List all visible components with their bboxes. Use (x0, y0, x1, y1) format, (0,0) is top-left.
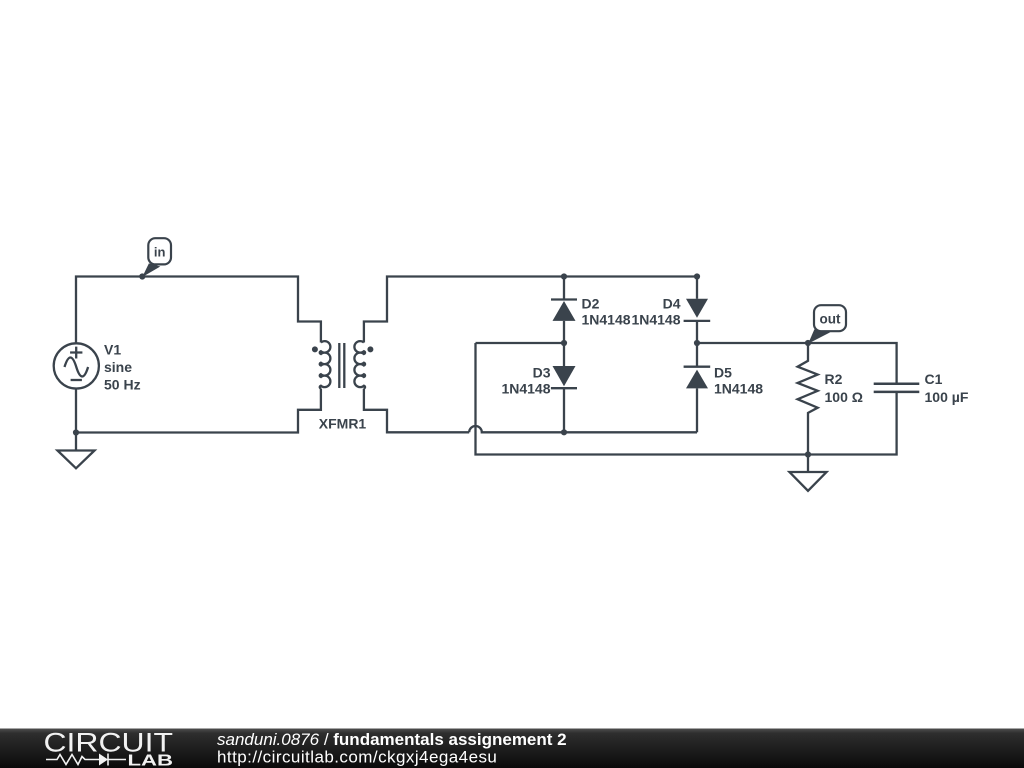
diode D2 (551, 277, 577, 344)
wire hop over vertical at x=475.5 (469, 426, 697, 432)
node H (out junction) (805, 340, 811, 346)
diode D4 (684, 277, 711, 344)
R2 labels (825, 371, 863, 405)
svg-text:D5: D5 (714, 365, 732, 381)
D4 labels (631, 296, 680, 328)
wire middle-right rail from D4/D5 junction to C1 top (697, 343, 897, 384)
transformer polarity dot (secondary) (367, 346, 373, 352)
D2 labels (582, 296, 631, 328)
V1 value labels (104, 342, 141, 393)
svg-text:sanduni.0876 / fundamentals as: sanduni.0876 / fundamentals assignement … (217, 730, 567, 749)
D3 labels (501, 365, 550, 397)
transformer polarity dot (primary) (312, 346, 318, 352)
svg-text:XFMR1: XFMR1 (319, 416, 367, 432)
net flag out (808, 305, 846, 343)
voltage source V1 (54, 343, 99, 388)
wire transformer secondary top to top rail toward D2/D4 (364, 277, 697, 343)
svg-text:V1: V1 (104, 342, 121, 358)
node A (in tag junction) (139, 273, 145, 279)
diode D5 (684, 343, 711, 432)
svg-text:1N4148: 1N4148 (714, 381, 763, 397)
footer url line (217, 748, 497, 767)
footer title line (217, 730, 567, 749)
node B (V1 bottom / ground junction) (73, 429, 79, 435)
svg-text:in: in (154, 245, 166, 260)
svg-text:LAB: LAB (128, 753, 174, 768)
logo resistor-diode glyph (46, 754, 126, 766)
node I (R2 bottom / ground junction) (805, 451, 811, 457)
CircuitLab logo wordmark (44, 728, 174, 758)
svg-text:1N4148: 1N4148 (582, 312, 631, 328)
footer bar (0, 729, 1024, 768)
C1 labels (925, 371, 969, 405)
svg-text:sine: sine (104, 359, 132, 375)
svg-text:1N4148: 1N4148 (631, 312, 680, 328)
wire left vertical and bottom rail to C1 (476, 343, 897, 455)
svg-text:C1: C1 (925, 371, 943, 387)
svg-text:50 Hz: 50 Hz (104, 377, 141, 393)
svg-text:100 Ω: 100 Ω (825, 389, 863, 405)
net flag in (142, 238, 171, 277)
transformer core lines (339, 343, 344, 388)
svg-text:D4: D4 (663, 296, 681, 312)
resistor R2 (798, 343, 818, 455)
transformer XFMR1 primary coil (320, 341, 331, 388)
node D (D4 top) (694, 273, 700, 279)
svg-text:D3: D3 (533, 365, 551, 381)
svg-text:1N4148: 1N4148 (501, 381, 550, 397)
ground (left) (58, 433, 95, 469)
node C (D2 top) (561, 273, 567, 279)
transformer XFMR1 secondary coil (354, 341, 365, 388)
D5 labels (714, 365, 763, 397)
svg-text:R2: R2 (825, 371, 843, 387)
logo LAB text (128, 753, 174, 768)
node F (D4/D5 junction) (694, 340, 700, 346)
node G (D3 bottom on rail) (561, 429, 567, 435)
svg-text:http://circuitlab.com/ckgxj4eg: http://circuitlab.com/ckgxj4ega4esu (217, 748, 497, 767)
wire middle-left rail (D2/D3 junction to left vertical) (476, 342, 565, 344)
wire transformer secondary bottom to bridge bottom rail (364, 389, 469, 433)
wire from V1 top through top rail to transformer primary top (76, 277, 321, 344)
node E (D2/D3 junction) (561, 340, 567, 346)
svg-text:100 µF: 100 µF (925, 389, 969, 405)
wire from transformer primary bottom to V1 bottom (76, 389, 321, 433)
diode D3 (551, 343, 577, 432)
capacitor C1 (874, 384, 920, 392)
ground (right) (790, 455, 827, 491)
svg-text:out: out (820, 312, 841, 327)
XFMR1 label (319, 416, 367, 432)
svg-text:D2: D2 (582, 296, 600, 312)
